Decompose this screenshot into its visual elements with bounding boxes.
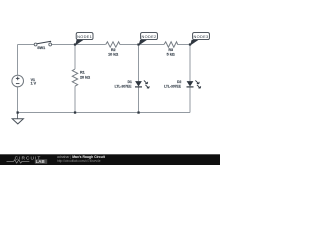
node NODE3 flag xyxy=(190,33,209,46)
LED D1 xyxy=(115,80,150,88)
wire R1 branch lower xyxy=(74,86,76,112)
LED D2 xyxy=(164,80,201,88)
svg-text:http://circuitlab.com/c/74hwv4: http://circuitlab.com/c/74hwv4e xyxy=(57,159,101,163)
wire left rail vertical lower xyxy=(17,87,19,113)
resistor R3 xyxy=(164,42,178,57)
svg-text:LTL-307EE: LTL-307EE xyxy=(164,85,182,89)
CircuitLab logo text xyxy=(7,155,48,164)
resistor R1 xyxy=(72,69,90,86)
wire D1 branch upper xyxy=(138,45,140,82)
svg-text:LTL-307EE: LTL-307EE xyxy=(115,85,133,89)
ground xyxy=(12,113,23,124)
node NODE1 flag xyxy=(75,33,93,46)
resistor R2 xyxy=(106,42,120,57)
svg-text:10 kΩ: 10 kΩ xyxy=(108,52,118,56)
wire top main horizontal (switch right to NODE1) xyxy=(51,44,105,46)
svg-text:NODE1: NODE1 xyxy=(77,34,92,39)
svg-text:5 kΩ: 5 kΩ xyxy=(167,53,175,57)
svg-text:D1: D1 xyxy=(128,80,132,84)
svg-text:LAB: LAB xyxy=(36,159,45,164)
wire top-left rail horizontal xyxy=(18,44,35,46)
svg-text:D2: D2 xyxy=(177,80,181,84)
svg-text:NODE3: NODE3 xyxy=(194,34,209,39)
wire D2 branch upper xyxy=(189,45,191,82)
voltage source V1 xyxy=(12,75,37,87)
wire left rail vertical upper xyxy=(17,45,19,76)
wire R1 branch upper xyxy=(74,45,76,70)
junction dot bottom R1 xyxy=(74,111,76,113)
junction dot NODE2 xyxy=(137,43,139,45)
junction dot ground rail left xyxy=(17,111,19,113)
junction dot NODE1 xyxy=(74,43,76,45)
node NODE2 flag xyxy=(139,33,158,46)
svg-text:NODE2: NODE2 xyxy=(142,34,157,39)
switch SW1 xyxy=(34,41,51,51)
wire D2 branch lower xyxy=(189,87,191,113)
wire D1 branch lower xyxy=(138,87,140,113)
svg-text:1 V: 1 V xyxy=(31,82,37,86)
junction dot bottom D1 xyxy=(137,111,139,113)
svg-text:R1: R1 xyxy=(80,70,85,74)
junction dot NODE3 xyxy=(189,43,191,45)
wire R3 right lead to NODE3 xyxy=(178,44,191,46)
svg-text:R3: R3 xyxy=(168,48,173,52)
wire R2 right lead to NODE2 xyxy=(120,44,164,46)
wire bottom horizontal xyxy=(18,112,191,114)
svg-text:R2: R2 xyxy=(111,48,116,52)
footer bar xyxy=(0,154,220,165)
svg-text:20 kΩ: 20 kΩ xyxy=(80,76,90,80)
svg-text:SW1: SW1 xyxy=(37,46,45,50)
